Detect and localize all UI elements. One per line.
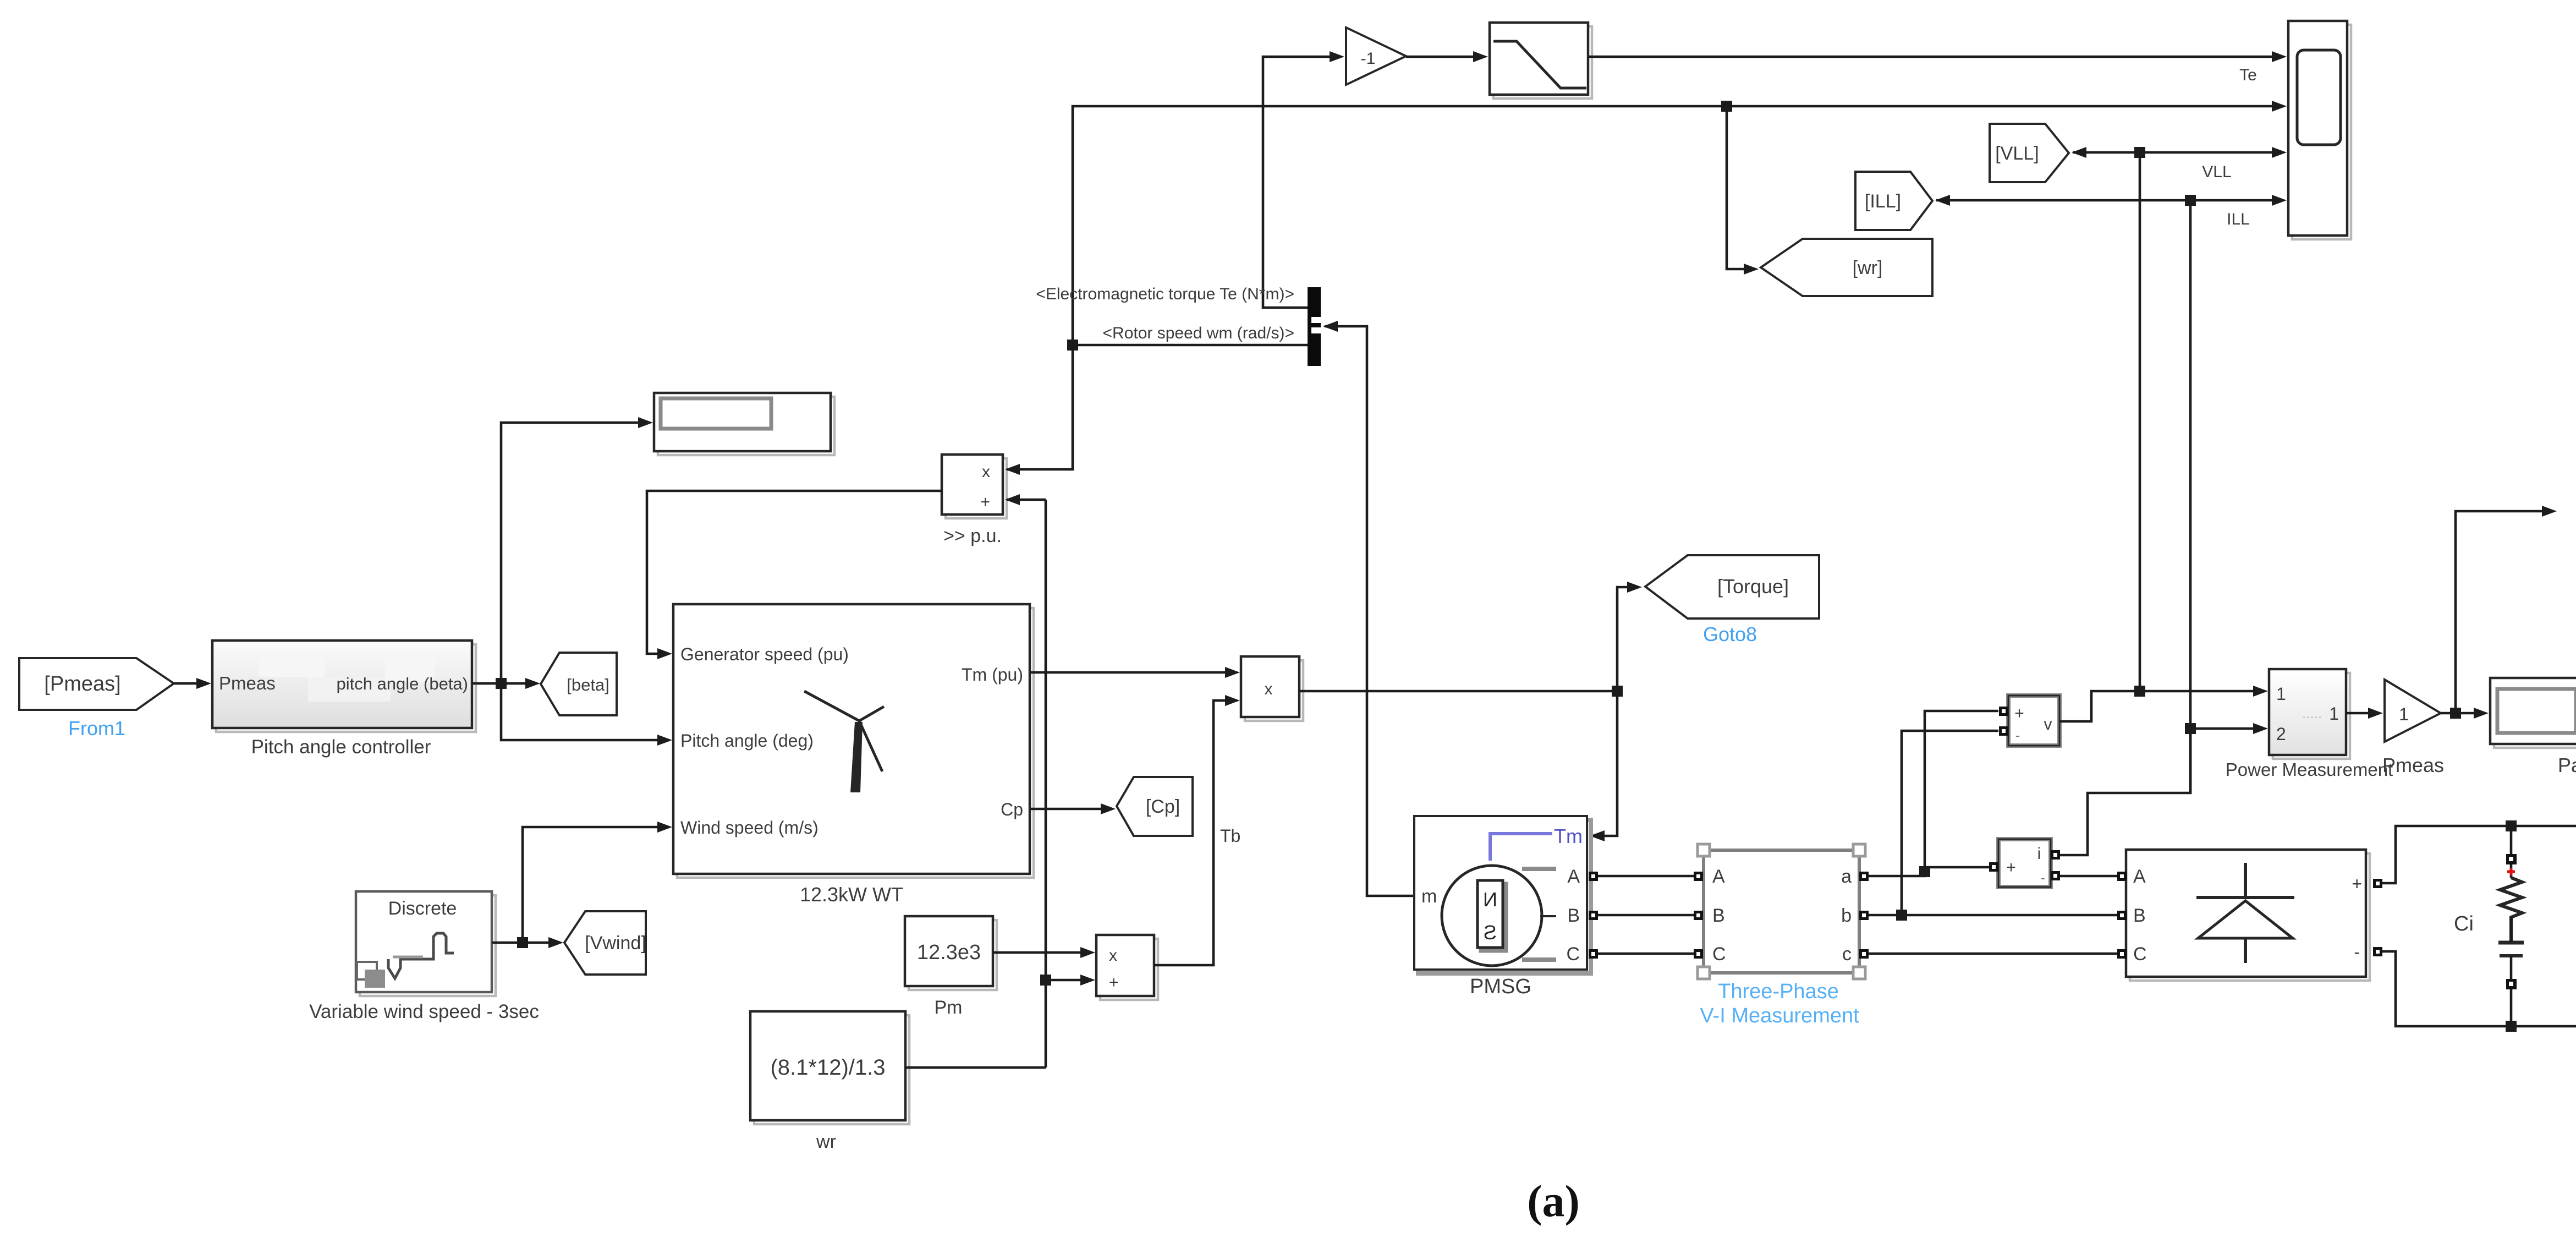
- svg-text:Tb: Tb: [1220, 826, 1240, 846]
- junction DC top: [2506, 820, 2517, 831]
- wire product output to junction: [1299, 690, 1617, 693]
- svg-text:wr: wr: [816, 1131, 836, 1152]
- svg-text:B: B: [1567, 905, 1580, 926]
- svg-text:1: 1: [2399, 704, 2409, 724]
- wire wm to >> p.u. x input: [1007, 345, 1073, 469]
- junction VLL riser: [2134, 686, 2145, 697]
- svg-text:m: m: [1421, 886, 1437, 907]
- wire i pass-through to rectifier A: [2060, 875, 2117, 878]
- wire junction down to PMSG Tm input: [1591, 691, 1617, 836]
- svg-text:B: B: [1712, 905, 1725, 926]
- junction wm to wr tag: [1721, 101, 1732, 112]
- diode icon: [2196, 863, 2294, 963]
- junction DC bottom: [2506, 1021, 2517, 1032]
- product block x+ (Pm/wr): [1100, 939, 1158, 1000]
- wire i output to Power Measurement input 2: [2060, 733, 2190, 855]
- svg-text:+: +: [2352, 874, 2362, 894]
- From block From1 [Pmeas]: [19, 658, 174, 710]
- wire VI a to current measurement: [1869, 867, 1990, 876]
- wire (8.1*12)/1.3 output to riser: [905, 1066, 1046, 1069]
- wire VLL line to scope input 3: [2073, 151, 2283, 154]
- svg-text:[Vwind]: [Vwind]: [585, 933, 646, 954]
- svg-text:b: b: [1841, 905, 1852, 926]
- block Three-Phase V-I Measurement: [1704, 850, 1859, 973]
- svg-text:<Rotor speed wm (rad/s)>: <Rotor speed wm (rad/s)>: [1103, 324, 1294, 342]
- PMSG magnet rect with N S mirrored: [1481, 884, 1506, 951]
- wire junction up to Display: [501, 423, 649, 683]
- wire Pmeas junction up and right off-canvas: [2456, 511, 2552, 713]
- svg-text:[Torque]: [Torque]: [1717, 575, 1789, 598]
- svg-text:-: -: [2041, 869, 2046, 886]
- wire Transfer Fcn output to Scope Te input: [1588, 56, 2283, 58]
- wire >> p.u. output to Generator speed input: [647, 491, 942, 654]
- voltage measurement block + - v: [2008, 696, 2059, 746]
- svg-text:i: i: [2037, 845, 2041, 863]
- svg-text:Tm: Tm: [1554, 825, 1583, 847]
- svg-text:x: x: [982, 463, 990, 481]
- svg-text:-: -: [2354, 942, 2360, 962]
- svg-text:Pm: Pm: [935, 997, 963, 1018]
- svg-text:[beta]: [beta]: [567, 675, 609, 694]
- wire Cp output to [Cp]: [1030, 808, 1112, 811]
- svg-text:+: +: [1109, 973, 1119, 992]
- Goto tag [beta]: [541, 653, 617, 715]
- svg-text:>> p.u.: >> p.u.: [943, 526, 1002, 546]
- subsystem 12.3kW WT wind turbine: [677, 608, 1034, 878]
- PMSG rotor circle: [1442, 866, 1542, 966]
- svg-text:v: v: [2044, 715, 2052, 734]
- svg-text:(8.1*12)/1.3: (8.1*12)/1.3: [770, 1055, 885, 1080]
- svg-text:N: N: [1483, 888, 1497, 911]
- resistor zigzag: [2500, 878, 2522, 941]
- svg-text:Power Measurement: Power Measurement: [2226, 759, 2393, 780]
- wind turbine icon: [804, 691, 884, 771]
- PMSG Tm internal blue wire: [1490, 834, 1552, 861]
- Goto tag [wr]: [1761, 239, 1932, 296]
- wire voltage - tap: [1902, 731, 1998, 915]
- svg-text:A: A: [1712, 866, 1725, 887]
- wire junction down to [wr]: [1727, 106, 1755, 269]
- wire wr riser to product + input: [1046, 979, 1092, 982]
- junction Pmeas output: [2450, 708, 2461, 719]
- svg-text:Pa: Pa: [2558, 754, 2576, 776]
- svg-text:Wind speed (m/s): Wind speed (m/s): [680, 818, 819, 838]
- discrete icon squares: [357, 962, 377, 979]
- svg-text:pitch angle (beta): pitch angle (beta): [336, 674, 468, 693]
- svg-text:-: -: [2015, 727, 2020, 743]
- wire PM output to Pmeas gain: [2346, 712, 2379, 715]
- svg-text:[Pmeas]: [Pmeas]: [44, 672, 120, 696]
- svg-text:x: x: [1265, 680, 1273, 698]
- junction a / voltage + tap: [1919, 866, 1930, 877]
- wire junction down to Pitch angle input: [501, 683, 669, 740]
- wire gain to Transfer Fcn: [1406, 56, 1484, 58]
- wire PMSG A to VI A: [1598, 875, 1694, 878]
- wire wm long to Scope input 2: [1073, 106, 2283, 345]
- svg-text:1: 1: [2276, 684, 2286, 704]
- product block x (Tm times Tb): [1245, 660, 1303, 721]
- Transfer Fcn (low-pass) block: [1493, 26, 1592, 98]
- junction wr riser: [1040, 975, 1051, 986]
- svg-text:VLL: VLL: [2202, 163, 2231, 181]
- junction on beta wire: [496, 678, 507, 689]
- product block >> p.u. (mirrored): [946, 458, 1007, 518]
- svg-text:Pmeas: Pmeas: [2382, 754, 2444, 776]
- wire junction up to Wind speed input: [523, 827, 669, 943]
- junction wm at riser: [1067, 340, 1078, 351]
- svg-text:B: B: [2133, 905, 2146, 926]
- svg-text:Tm (pu): Tm (pu): [962, 665, 1023, 685]
- junction b / voltage - tap: [1896, 910, 1907, 921]
- svg-text:1: 1: [2329, 704, 2339, 724]
- svg-text:V-I Measurement: V-I Measurement: [1700, 1004, 1859, 1027]
- V-I selection corner handles: [1698, 844, 1710, 856]
- svg-text:c: c: [1842, 944, 1852, 965]
- svg-text:Generator speed (pu): Generator speed (pu): [680, 644, 849, 664]
- svg-text:-1: -1: [1361, 50, 1376, 68]
- svg-text:Three-Phase: Three-Phase: [1718, 980, 1839, 1003]
- wire ILL junction to PM in2: [2190, 727, 2265, 730]
- display block Pa (cut at edge): [2494, 682, 2576, 748]
- svg-text:Discrete: Discrete: [388, 898, 457, 919]
- wire PMSG C to VI C: [1598, 953, 1694, 955]
- constant block (8.1*12)/1.3: [754, 1015, 909, 1124]
- junction ILL: [2185, 195, 2196, 206]
- svg-text:+: +: [2014, 704, 2024, 723]
- wire PMSG m to Bus Selector input: [1325, 326, 1414, 896]
- svg-text:Cp: Cp: [1001, 800, 1023, 819]
- source block Variable wind speed - 3sec (Discrete): [360, 895, 496, 996]
- rectifier + - ports: [2373, 879, 2382, 888]
- wire Te from Bus Selector to Gain -1: [1263, 57, 1341, 308]
- wire VI c to rectifier C: [1869, 953, 2117, 955]
- gain block Pmeas (1): [2385, 680, 2441, 742]
- wire wm from Bus Selector: [1073, 344, 1308, 347]
- wire ILL riser vertical: [2189, 200, 2192, 793]
- svg-text:A: A: [2133, 866, 2146, 887]
- svg-text:Te: Te: [2239, 66, 2257, 84]
- wire rectifier + to DC bus top: [2382, 826, 2576, 883]
- PMSG grey stator stubs: [1522, 869, 1556, 960]
- svg-text:12.3kW WT: 12.3kW WT: [800, 883, 903, 906]
- svg-text:S: S: [1484, 921, 1497, 944]
- wire ILL line to scope input 4: [1936, 199, 2283, 202]
- svg-text:[wr]: [wr]: [1853, 258, 1883, 278]
- From tag [ILL]: [1855, 172, 1932, 230]
- discrete icon waveform: [388, 933, 454, 978]
- svg-text:(a): (a): [1527, 1176, 1580, 1226]
- svg-text:x: x: [1109, 946, 1117, 965]
- wire wr riser to >> p.u. + input: [1007, 499, 1046, 501]
- svg-text:Ci: Ci: [2454, 912, 2474, 935]
- wire controller output to [beta]: [472, 682, 537, 685]
- svg-text:PMSG: PMSG: [1470, 975, 1531, 998]
- svg-text:C: C: [1712, 944, 1726, 965]
- svg-text:[Cp]: [Cp]: [1146, 796, 1180, 817]
- svg-text:Pitch angle controller: Pitch angle controller: [251, 736, 431, 758]
- wire From1 to Pitch angle controller: [174, 682, 208, 685]
- Bus Selector bar: [1308, 287, 1321, 366]
- wire VLL riser vertical: [2139, 152, 2141, 691]
- svg-text:[ILL]: [ILL]: [1865, 191, 1901, 212]
- svg-text:From1: From1: [68, 717, 125, 740]
- constant block 12.3e3: [909, 920, 997, 990]
- svg-text:ILL: ILL: [2227, 210, 2250, 228]
- wire v output to Power Measurement input 1: [2059, 691, 2265, 721]
- wire product output Tb riser to product1 input 2: [1154, 700, 1237, 965]
- svg-text:C: C: [1566, 944, 1580, 965]
- wire rectifier - to DC bus bottom: [2382, 951, 2576, 1026]
- subsystem Pitch angle controller: [216, 644, 476, 732]
- wire Pmeas gain to Pa display: [2441, 712, 2485, 715]
- wire VI b to rectifier B: [1869, 914, 2117, 917]
- svg-text:2: 2: [2276, 724, 2286, 744]
- subsystem Power Measurement: [2273, 673, 2350, 759]
- From tag [VLL]: [1990, 124, 2069, 182]
- Display block (beta): [658, 397, 834, 455]
- Universal Bridge rectifier block: [2130, 853, 2370, 981]
- wire wr riser vertical: [1045, 500, 1047, 1068]
- svg-text:+: +: [980, 493, 990, 511]
- svg-text:<Electromagnetic torque Te (N*: <Electromagnetic torque Te (N*m)>: [1036, 285, 1294, 303]
- Scope block (4 inputs): [2292, 25, 2351, 239]
- current measurement block + i: [1998, 839, 2051, 887]
- wire Tm (pu) to product input 1: [1030, 671, 1237, 674]
- svg-text:+: +: [2006, 858, 2016, 877]
- series RC branch Ci: [2510, 826, 2513, 878]
- wire 12.3e3 to product x input: [993, 951, 1092, 954]
- svg-text:[VLL]: [VLL]: [1995, 143, 2039, 164]
- machine block PMSG: [1418, 820, 1591, 973]
- svg-text:a: a: [1841, 866, 1852, 887]
- svg-text:Variable wind speed - 3sec: Variable wind speed - 3sec: [309, 1001, 539, 1022]
- capacitor plates: [2498, 941, 2524, 945]
- Goto tag [Torque] Goto8: [1645, 555, 1819, 618]
- svg-text:Pmeas: Pmeas: [219, 673, 276, 693]
- svg-text:Goto8: Goto8: [1703, 623, 1757, 645]
- Goto tag [Cp]: [1117, 777, 1193, 836]
- junction ILL riser: [2185, 723, 2196, 734]
- svg-text:C: C: [2133, 944, 2147, 965]
- svg-text:.....: .....: [2302, 705, 2322, 721]
- junction torque: [1612, 686, 1623, 697]
- wire Discrete output to [Vwind]: [492, 942, 560, 944]
- svg-text:12.3e3: 12.3e3: [917, 941, 981, 964]
- wire junction up to [Torque]: [1617, 587, 1638, 691]
- svg-text:A: A: [1567, 866, 1580, 887]
- gain block -1: [1346, 28, 1406, 85]
- wire voltage + tap: [1925, 711, 1998, 867]
- wire PMSG B to VI B: [1598, 914, 1694, 917]
- Goto tag [Vwind]: [564, 911, 646, 975]
- junction on Vwind wire: [517, 937, 528, 948]
- junction VLL: [2134, 147, 2145, 158]
- svg-text:Pitch angle (deg): Pitch angle (deg): [680, 731, 814, 751]
